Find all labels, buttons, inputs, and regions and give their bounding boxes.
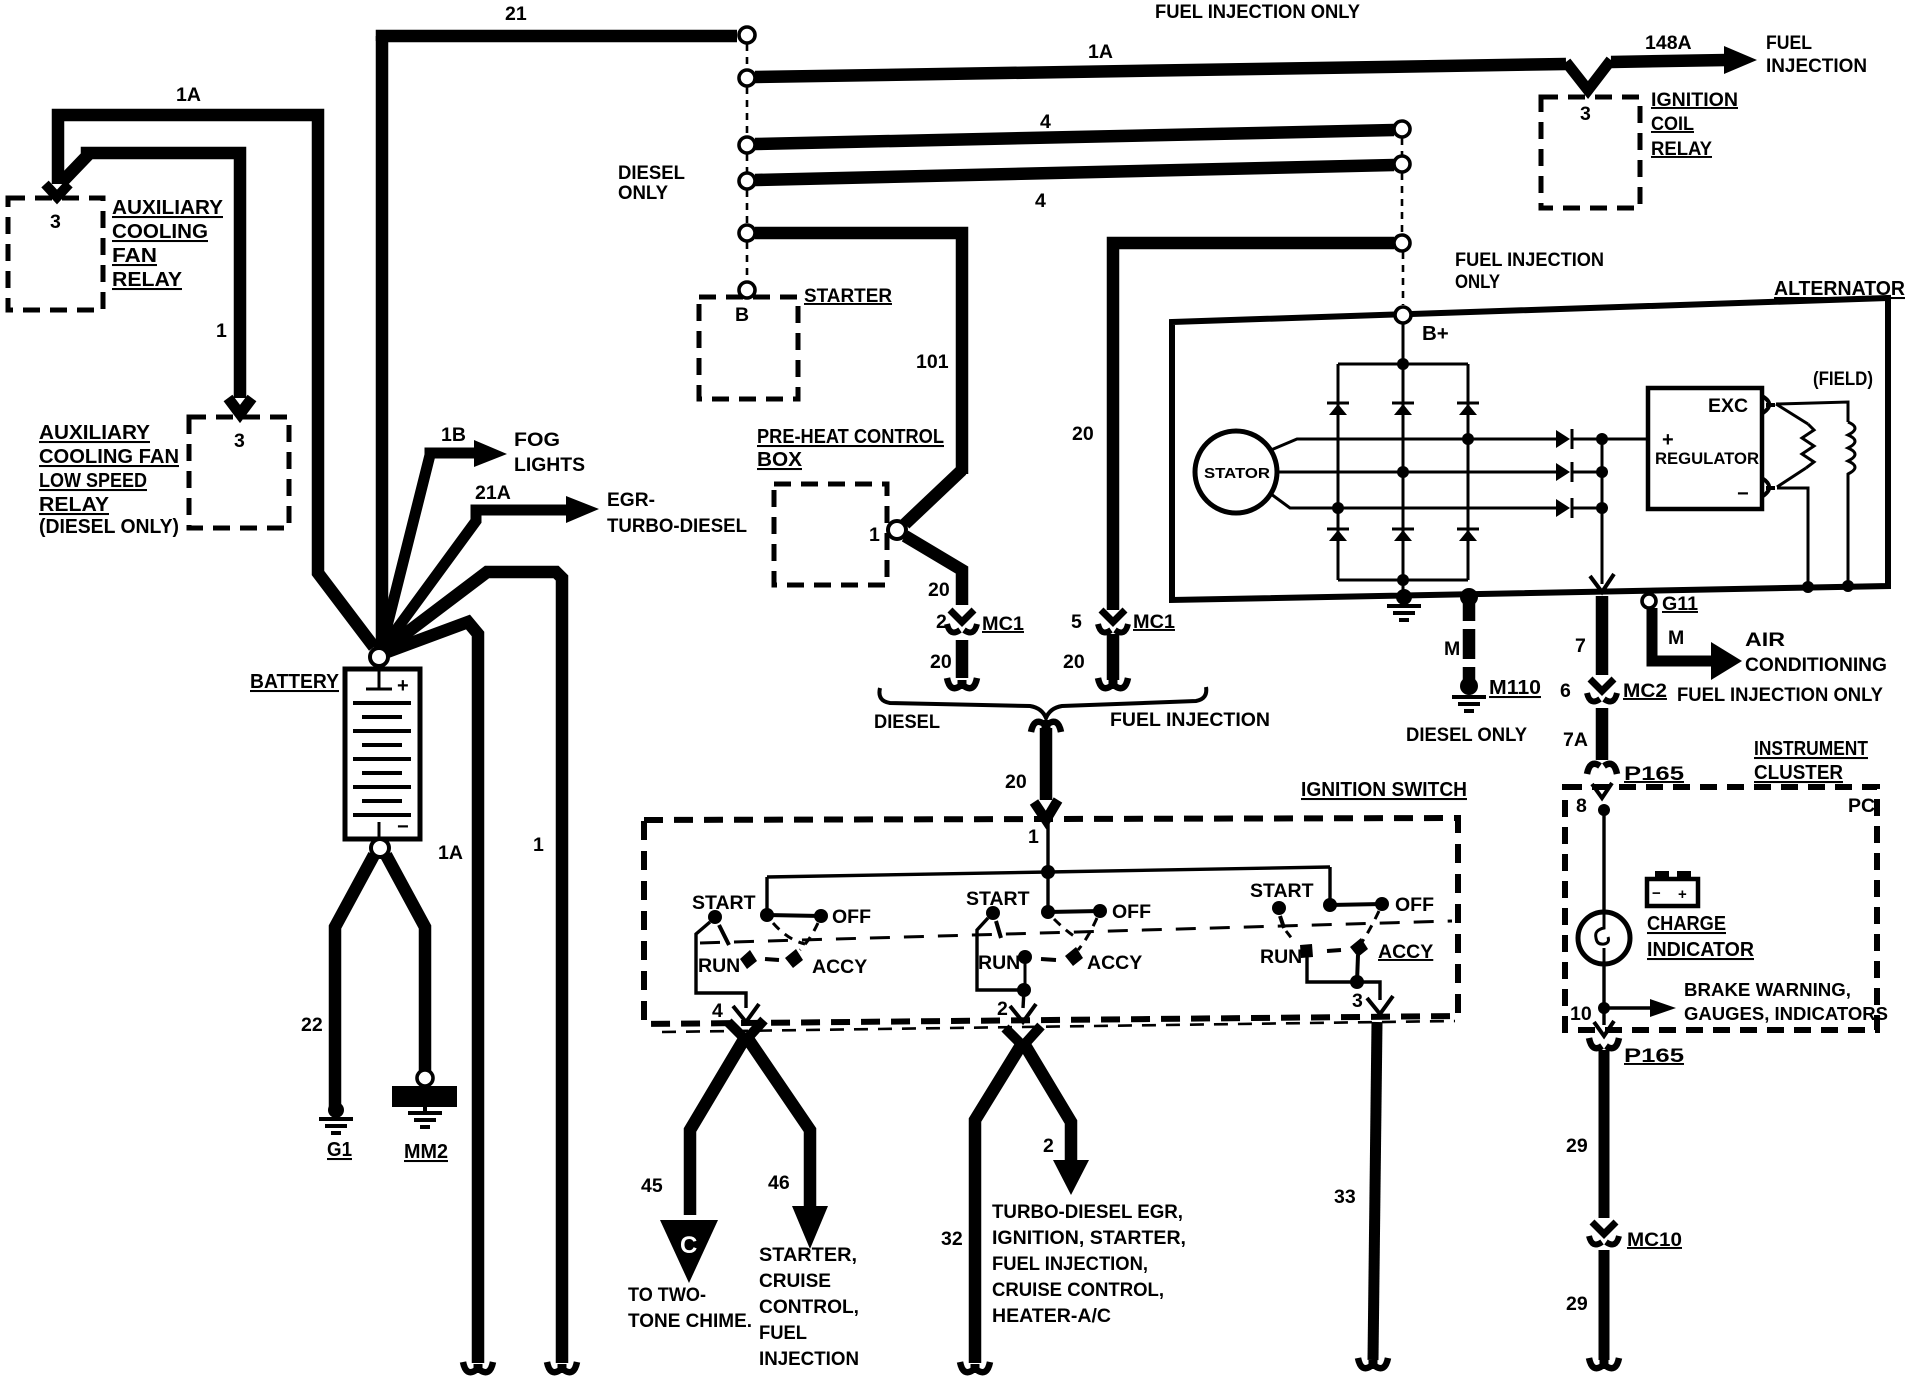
node MM2 terminal [417,1070,433,1086]
junction dot collector phase3 [1596,502,1608,514]
svg-text:FUEL INJECTION: FUEL INJECTION [1455,249,1604,271]
node circle starter B [739,282,755,298]
svg-text:29: 29 [1566,1293,1588,1315]
hook end wire 1 [547,1362,577,1372]
svg-text:MC10: MC10 [1627,1229,1682,1251]
connector MC10 [1592,1222,1616,1234]
contact arm stub (sw3) [1280,916,1284,928]
junction dot M110 [1460,677,1478,695]
svg-text:4: 4 [1035,190,1046,212]
junction dot collector phase2 [1596,466,1608,478]
dashed arm OFF-ACCY (sw3) [1362,911,1379,942]
dash RUN-ACCY (sw3) [1327,950,1341,951]
arrowhead C (two-tone chime) [660,1220,718,1283]
wire ACCY to junction (sw3) [1357,955,1358,982]
switch 1 (left) [692,892,871,1022]
svg-text:OFF: OFF [1395,894,1434,916]
wire EXC to resistor and coil [1776,404,1808,424]
svg-text:START: START [966,888,1030,910]
connector P165 (lower) [1589,1038,1619,1048]
node battery negative terminal [371,839,389,857]
arrowhead brake warning [1650,999,1676,1017]
node circle wire4b right [1394,156,1410,172]
arrow into instrument cluster [1592,783,1612,798]
stator circle [1195,431,1277,513]
lamp filament [1596,913,1609,963]
svg-text:2: 2 [936,611,947,633]
svg-text:1A: 1A [1088,41,1113,63]
svg-text:1: 1 [533,834,544,856]
svg-text:FUEL INJECTION ONLY: FUEL INJECTION ONLY [1677,684,1883,706]
wire 20 (alternator B+ feed) [1113,243,1394,610]
hook end wire 32 [960,1362,990,1372]
diode D1 (top col1) [1327,403,1349,415]
svg-text:33: 33 [1334,1186,1356,1208]
svg-text:4: 4 [712,1000,723,1022]
svg-text:MC2: MC2 [1623,680,1667,702]
svg-text:+: + [1678,886,1687,903]
svg-text:1A: 1A [438,842,463,864]
svg-text:IGNITION, STARTER,: IGNITION, STARTER, [992,1227,1186,1249]
contact arm stub (sw2) [996,921,1001,938]
switch 2 (center) [966,888,1151,1022]
diode D9 (phase3 exciter) [1556,498,1602,518]
contact START dot (sw1) [708,910,722,924]
alternator box [1172,298,1888,600]
svg-text:LIGHTS: LIGHTS [514,454,585,476]
svg-text:HEATER-A/C: HEATER-A/C [992,1305,1111,1327]
wire START to terminal 4 (sw1) [696,922,746,1008]
connector MC2 [1590,679,1614,691]
contact OFF dot (sw3) [1375,897,1389,911]
wire 22 (battery to ground G1) [335,855,374,1108]
svg-text:GAUGES, INDICATORS: GAUGES, INDICATORS [1684,1004,1888,1024]
arrow terminal 4 [733,1004,759,1022]
svg-text:B: B [735,304,749,326]
pre-heat control box [774,484,887,585]
svg-text:RUN: RUN [978,952,1020,974]
wire 33 [1373,1022,1377,1360]
ground G1 [319,1119,353,1133]
svg-text:LOW SPEED: LOW SPEED [39,469,147,492]
svg-text:TURBO-DIESEL: TURBO-DIESEL [607,515,747,537]
svg-text:CONDITIONING: CONDITIONING [1745,654,1887,676]
node circle wire4b left [739,173,755,189]
svg-text:RUN: RUN [698,955,740,977]
wire 29 (lower) [1599,1250,1610,1360]
arrow V into aux cooling fan relay [45,184,69,197]
node B+ [1395,307,1411,323]
svg-text:M: M [1668,627,1684,649]
contact minus (bottom field contact) [1762,478,1775,496]
switch 3 (right) [1250,880,1434,1014]
dashed arm OFF-ACCY (sw2) [1078,918,1097,950]
contact START dot (sw2) [986,906,1000,920]
svg-text:(FIELD): (FIELD) [1813,368,1873,390]
wire pin1 to bus [1046,822,1049,872]
contact ACCY (sw3) [1350,938,1368,957]
arrow V into ignition coil relay [1566,60,1611,90]
svg-text:M: M [1444,638,1460,660]
wire bus to right pivot [1328,867,1331,905]
svg-text:21A: 21A [475,482,511,504]
contact RUN dot (sw2) [1018,950,1032,964]
svg-text:EXC: EXC [1708,395,1748,417]
svg-text:2: 2 [997,998,1008,1020]
contact OFF dot (sw2) [1093,904,1107,918]
bridge top rail [1338,363,1468,366]
svg-text:TURBO-DIESEL EGR,: TURBO-DIESEL EGR, [992,1201,1183,1223]
diode D3 (top col3) [1457,403,1479,415]
dashed arm pivot-ACCY (sw2) [1054,919,1074,936]
hook end wire 20 right [1098,678,1128,688]
svg-text:BRAKE WARNING,: BRAKE WARNING, [1684,980,1851,1000]
junction dot pin 8 [1598,804,1610,816]
resistor (field) [1802,424,1814,468]
svg-text:RUN: RUN [1260,946,1302,968]
wire RUN to junction (sw2) [1024,957,1027,990]
svg-text:COOLING: COOLING [112,220,208,243]
svg-text:+: + [397,675,409,697]
svg-text:P165: P165 [1624,1045,1684,1067]
svg-text:1: 1 [869,524,880,546]
wire 7 (alternator to MC2) [1596,596,1609,675]
wire to brake warning [1604,1006,1652,1009]
svg-text:INSTRUMENT: INSTRUMENT [1754,737,1868,760]
svg-text:3: 3 [1352,990,1363,1012]
node G11 [1642,594,1656,608]
wire 46 [746,1036,810,1208]
svg-text:CHARGE: CHARGE [1647,912,1726,935]
wire B+ to bridge [1402,323,1405,364]
wire 29 (upper) [1599,1050,1610,1218]
svg-text:22: 22 [301,1014,323,1036]
arrow chevron below terminal 2 [1005,1026,1041,1046]
hook end wire 33 [1358,1358,1388,1368]
svg-text:RELAY: RELAY [39,493,109,516]
node circle wire101 [739,225,755,241]
svg-text:FUEL INJECTION: FUEL INJECTION [1110,709,1270,731]
svg-text:1: 1 [216,320,227,342]
svg-text:FUEL INJECTION ONLY: FUEL INJECTION ONLY [1155,1,1360,23]
wire M (alternator to M110) [1463,597,1476,621]
junction dot terminal 2 [1017,983,1031,997]
arrow terminal 3 [1367,996,1393,1014]
svg-text:−: − [397,816,409,838]
svg-text:MC1: MC1 [1133,611,1175,633]
connector MC1 (pin 2) [950,610,974,622]
contact OFF dot (sw1) [814,909,828,923]
svg-text:ONLY: ONLY [618,182,668,204]
svg-text:STARTER: STARTER [804,285,892,307]
wire junction to terminal 2 [1023,990,1024,1008]
svg-text:OFF: OFF [1112,901,1151,923]
diode D4 (bottom col1) [1327,529,1349,541]
contact ACCY (sw1) [785,949,803,968]
svg-text:IGNITION: IGNITION [1651,89,1738,111]
junction dot M110 tap [1460,588,1478,606]
svg-text:7A: 7A [1563,729,1588,751]
svg-text:3: 3 [1580,103,1591,125]
node circle top of dashed chain [739,27,755,43]
field coil [1848,422,1855,584]
node circle wire4a right [1394,121,1410,137]
wire 2 [1023,1042,1071,1162]
exciter collector line [1601,439,1604,584]
wire 45 [690,1036,746,1215]
bridge column 3 [1467,364,1470,580]
wire RUN to junction (sw3) [1307,957,1356,982]
wire 4 (upper) [755,130,1394,144]
wire 20 (to ignition switch) [1040,728,1053,800]
svg-text:TO TWO-: TO TWO- [628,1284,706,1306]
wire pivot to OFF (sw2) [1048,911,1100,912]
svg-text:4: 4 [1040,111,1051,133]
instrument cluster box [1565,787,1877,1030]
relay K3 ignition coil relay box [1541,97,1640,208]
svg-text:1B: 1B [441,424,466,446]
connector P165 (upper) [1587,764,1617,774]
contact EXC (top field contact) [1762,396,1775,413]
contact RUN (sw3) [1300,944,1313,958]
hook end wire 29 [1589,1358,1619,1368]
svg-text:MM2: MM2 [404,1140,448,1163]
svg-text:6: 6 [1560,680,1571,702]
diode D8 (phase2 exciter) [1556,462,1602,482]
arrowhead fuel injection [1724,46,1757,74]
dashed arm START (sw3) [1286,931,1293,940]
svg-text:20: 20 [1072,423,1094,445]
svg-text:3: 3 [234,430,245,452]
svg-text:C: C [680,1232,697,1259]
svg-text:RELAY: RELAY [1651,138,1712,160]
pivot dot (sw3) [1323,898,1337,912]
junction dot bus center [1041,865,1055,879]
svg-text:21: 21 [505,3,527,25]
svg-text:EGR-: EGR- [607,489,655,511]
charge indicator lamp [1578,912,1630,964]
hook end wire 20 left [947,678,977,688]
pivot dot (sw2) [1041,905,1055,919]
junction dot case ground [1396,589,1412,605]
wire 7A [1596,708,1609,760]
wire 20 (pre-heat to MC1) [905,536,962,605]
svg-text:OFF: OFF [832,906,871,928]
pivot dot (sw1) [760,908,774,922]
junction dot terminal 3 [1350,975,1364,989]
svg-text:ACCY: ACCY [1378,941,1433,963]
svg-text:FAN: FAN [112,244,157,267]
wire 1A (battery to aux cooling fan relay) [58,115,374,647]
wire 21A (to EGR turbo diesel) [380,510,570,652]
svg-text:RELAY: RELAY [112,268,182,291]
wire battery to ground MM2 [386,855,425,1073]
svg-text:DIESEL ONLY: DIESEL ONLY [1406,724,1527,746]
dashed arm OFF-ACCY (sw1) [800,923,818,950]
svg-text:MC1: MC1 [982,613,1024,635]
svg-text:CRUISE: CRUISE [759,1270,831,1292]
svg-text:CONTROL,: CONTROL, [759,1296,859,1318]
svg-text:FUEL INJECTION,: FUEL INJECTION, [992,1253,1148,1275]
svg-text:20: 20 [928,579,950,601]
svg-text:3: 3 [50,211,61,233]
svg-text:1: 1 [1028,826,1039,848]
diode D6 (bottom col3) [1457,529,1479,541]
ground M110 [1452,697,1486,711]
svg-text:REGULATOR: REGULATOR [1655,449,1759,468]
stator lead 2 [1277,471,1558,474]
junction dot pin 10 [1598,1002,1610,1014]
wire junction to terminal 3 [1357,982,1380,1000]
svg-text:45: 45 [641,1175,663,1197]
wire 20 below MC1 left [956,640,969,678]
svg-text:M110: M110 [1489,676,1541,699]
wire 4 (lower) [755,165,1394,180]
svg-text:FOG: FOG [514,429,560,451]
diode D7 (phase1 exciter) [1556,429,1602,449]
arrow out of cluster (to P165) [1594,1021,1614,1036]
battery icon (charge indicator) [1647,871,1698,906]
svg-text:ACCY: ACCY [812,956,867,978]
junction dot phase2-col2 [1397,466,1409,478]
wire pivot to OFF (sw3) [1330,904,1382,905]
thin dashed line below box [662,1021,1455,1032]
svg-text:INJECTION: INJECTION [759,1348,859,1370]
diode D5 (bottom col2) [1392,529,1414,541]
svg-text:PRE-HEAT CONTROL: PRE-HEAT CONTROL [757,425,944,448]
svg-text:AUXILIARY: AUXILIARY [112,196,223,219]
brace diesel / fuel injection [879,687,1206,718]
svg-text:COOLING FAN: COOLING FAN [39,445,179,468]
svg-text:FUEL: FUEL [1766,32,1812,54]
svg-text:G11: G11 [1662,593,1698,615]
svg-text:B+: B+ [1422,322,1449,345]
svg-text:5: 5 [1071,611,1082,633]
dashed arm pivot-ACCY (sw1) [773,923,805,944]
svg-text:7: 7 [1575,635,1586,657]
svg-text:CRUISE CONTROL,: CRUISE CONTROL, [992,1279,1164,1301]
svg-text:TONE CHIME.: TONE CHIME. [628,1310,752,1332]
wire minus contact to bottom rail [1777,488,1808,585]
wire (dashed chain x=747) [746,44,749,69]
wire 21 [382,36,737,41]
contact START dot (sw3) [1272,901,1286,915]
junction dot top rail [1397,358,1409,370]
gang dashed link [700,921,1452,943]
svg-text:20: 20 [1063,651,1085,673]
svg-text:STATOR: STATOR [1204,466,1271,482]
arrow V into low speed relay [228,398,252,414]
contact ACCY (sw2) [1065,947,1083,966]
wire 1B (to fog lights) [381,453,478,650]
svg-text:FUEL: FUEL [759,1322,807,1344]
svg-text:STARTER,: STARTER, [759,1244,857,1266]
wire regulator plus input [1602,438,1648,441]
svg-text:20: 20 [1005,771,1027,793]
bridge bottom rail [1338,579,1468,582]
svg-text:DIESEL: DIESEL [618,162,685,184]
wire bridge to case ground [1402,580,1405,598]
svg-text:ACCY: ACCY [1087,952,1142,974]
junction dot G1 [328,1102,344,1118]
svg-text:INDICATOR: INDICATOR [1647,938,1754,961]
arrowhead wire 2 [1053,1160,1089,1195]
arrow into ignition switch [1034,800,1058,820]
svg-text:+: + [1662,429,1674,451]
arrowhead air conditioning [1711,642,1742,680]
svg-text:ONLY: ONLY [1455,271,1500,293]
svg-text:32: 32 [941,1228,963,1250]
connector MC1 (pin 5) [1101,610,1125,622]
node battery positive junction [370,648,388,666]
dash RUN-ACCY (sw2) [1041,959,1056,960]
wire START to junction (sw2) [977,918,1024,990]
wire 1A (down, right of battery) [379,622,478,1363]
node circle wire4a left [739,137,755,153]
svg-text:P165: P165 [1624,763,1684,785]
svg-text:−: − [1652,885,1661,902]
svg-text:BOX: BOX [757,448,802,471]
regulator box [1648,388,1762,509]
ground block MM2 [392,1086,457,1107]
svg-text:G1: G1 [327,1138,352,1161]
node circle 1A [739,70,755,86]
wire 21 vertical to battery junction [379,36,382,652]
wire 101 lower (into pre-heat box pin) [905,470,962,524]
svg-text:10: 10 [1570,1003,1592,1025]
wire 20 below MC1 right [1107,634,1120,680]
svg-text:−: − [1737,483,1749,505]
wire 1 (relay to low speed relay) [62,153,240,398]
wire 148A to fuel injection [1611,60,1727,62]
relay K2 aux cooling fan low speed relay box [189,417,289,528]
hook top of wire 20 (ignition feed) [1031,722,1061,732]
svg-text:COIL: COIL [1651,113,1694,135]
wire bus to left pivot [765,877,768,915]
ground MM2 [408,1107,442,1127]
bridge column 2 [1402,364,1405,580]
arrowhead 46 [792,1206,828,1249]
contact arm stub (sw1) [719,925,729,945]
svg-text:148A: 148A [1645,32,1692,54]
dash RUN-ACCY (sw1) [765,959,779,960]
wire resistor bottom to minus contact [1777,468,1806,487]
arrow terminal 2 [1010,1004,1036,1022]
svg-text:1A: 1A [176,84,201,106]
arrow collector to bottom edge [1590,574,1614,592]
wire 1 (down right of battery) [380,572,562,1363]
svg-text:CLUSTER: CLUSTER [1754,761,1843,784]
stator lead 1 [1271,439,1558,450]
relay K1 aux cooling fan relay box [8,198,103,310]
junction dot field wire 1 [1802,581,1814,593]
contact RUN (sw1) [740,950,757,969]
junction dot field wire 2 [1842,580,1854,592]
dashed chain x=1402 [1401,138,1404,156]
stator lead 3 [1271,494,1558,508]
bridge column 1 [1337,364,1340,580]
junction dot collector phase1 [1596,433,1608,445]
wire M (G11 to air conditioning) [1652,608,1713,661]
svg-text:START: START [692,892,756,914]
ignition switch box [644,818,1458,1024]
svg-text:AIR: AIR [1745,629,1785,651]
hook end wire 1A [463,1362,493,1372]
junction dot bottom rail [1397,574,1409,586]
wire 1A (to ignition coil relay and fuel injection) [755,64,1566,77]
starter box [699,297,798,399]
wire pin8 to lamp [1602,810,1605,913]
